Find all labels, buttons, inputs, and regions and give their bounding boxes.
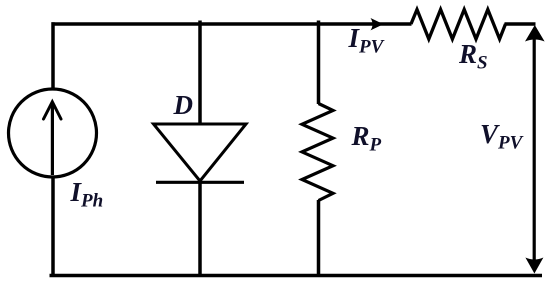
- wire R_S right to output: [505, 22, 536, 26]
- resistor R_S zigzag: [411, 10, 506, 40]
- wire left vertical (top segment to current source): [51, 22, 55, 90]
- wire bottom rail: [50, 274, 543, 278]
- label V_PV: [480, 121, 522, 148]
- label R_S: [459, 41, 488, 68]
- arrow I_PV on top rail: [371, 18, 384, 30]
- diode D triangle: [154, 124, 247, 181]
- label I_Ph: [71, 179, 104, 206]
- diode D cathode bar: [156, 181, 244, 184]
- V_PV top arrowhead: [525, 25, 545, 42]
- wire R_P branch top: [317, 21, 321, 105]
- wire diode branch top: [198, 21, 202, 125]
- label I_PV: [349, 25, 384, 52]
- wire left vertical (current source to bottom rail): [51, 176, 55, 276]
- label R_P: [352, 123, 382, 150]
- current source I_Ph circle: [9, 89, 97, 177]
- label D: [174, 92, 194, 119]
- resistor R_P zigzag: [302, 104, 333, 201]
- V_PV measurement line: [533, 30, 536, 268]
- current source arrowhead: [44, 102, 62, 119]
- current source arrow shaft: [51, 104, 54, 176]
- wire top rail: [52, 22, 412, 26]
- V_PV bottom arrowhead: [525, 258, 543, 274]
- wire R_P branch bottom: [317, 200, 321, 276]
- wire diode branch bottom: [198, 182, 202, 276]
